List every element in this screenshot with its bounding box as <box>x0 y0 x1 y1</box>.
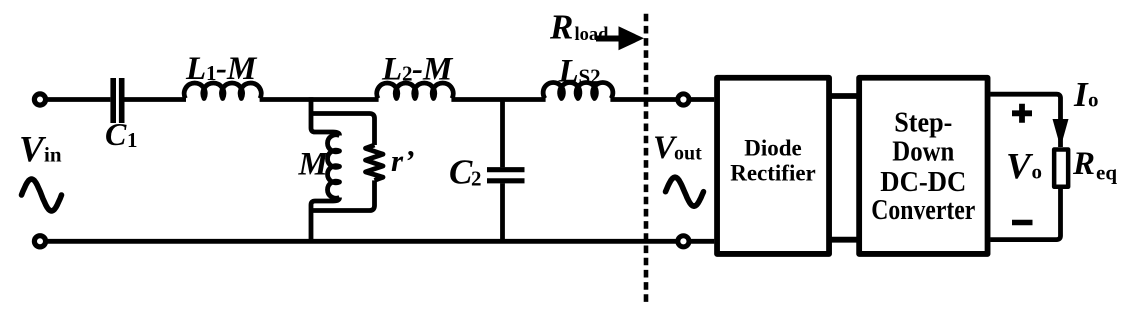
dashed boundary line <box>644 14 649 302</box>
svg-text:R: R <box>549 8 573 47</box>
inductor L2-M coil <box>377 83 454 98</box>
svg-text:2: 2 <box>471 167 482 191</box>
svg-text:load: load <box>575 25 610 45</box>
wire output terminal bottom to diode rectifier box <box>690 239 714 244</box>
svg-text:V: V <box>19 129 47 170</box>
inductor M coil <box>328 135 340 199</box>
source Vout sine <box>666 177 704 206</box>
svg-text:L: L <box>381 52 402 88</box>
wire top from input terminal to C1 <box>45 97 110 102</box>
Rload arrow stem <box>596 36 620 42</box>
svg-text:-M: -M <box>412 52 454 88</box>
wire right loop bottom <box>990 189 1060 240</box>
wire LS2 to output terminal <box>610 97 676 102</box>
svg-text:C: C <box>449 153 473 192</box>
svg-text:M: M <box>298 146 330 182</box>
capacitor C2 plates <box>487 167 525 172</box>
svg-text:Diode: Diode <box>744 136 802 161</box>
svg-text:Down: Down <box>892 136 954 168</box>
svg-text:o: o <box>1088 88 1099 112</box>
plus sign <box>1012 104 1032 123</box>
wire L1-M to L2-M through node A <box>260 97 379 102</box>
capacitor C2 top lead <box>500 100 505 168</box>
svg-text:Step-: Step- <box>894 107 952 139</box>
wire between boxes bottom <box>831 237 857 243</box>
svg-text:in: in <box>44 142 62 166</box>
Rload arrowhead <box>619 26 645 50</box>
terminal input bottom <box>34 236 45 247</box>
capacitor C2 bottom lead <box>500 183 505 241</box>
inductor L1-M coil <box>184 83 261 99</box>
svg-text:Converter: Converter <box>871 194 975 226</box>
wire C1 to L1-M <box>125 97 187 102</box>
bottom wire from input terminal to output terminal <box>45 239 676 244</box>
svg-text:2: 2 <box>402 62 413 86</box>
wire L2-M to LS2 through node B <box>451 97 545 102</box>
Io arrowhead <box>1053 119 1069 148</box>
svg-text:out: out <box>674 143 702 165</box>
wire output terminal top to diode rectifier box <box>690 97 714 102</box>
svg-text:L: L <box>185 51 206 87</box>
resistor r' top lead <box>311 114 375 146</box>
resistor Req box <box>1054 149 1068 186</box>
source Vin sine <box>22 179 62 211</box>
svg-text:S2: S2 <box>579 64 601 88</box>
resistor r' bottom lead <box>311 180 375 210</box>
svg-text:o: o <box>1032 160 1043 184</box>
svg-text:-M: -M <box>216 51 258 87</box>
M coil bottom connection <box>311 198 340 244</box>
wire right loop top <box>990 94 1060 147</box>
minus sign <box>1012 220 1033 225</box>
svg-text:R: R <box>1072 146 1095 182</box>
step-down dc-dc converter box <box>859 78 987 254</box>
svg-text:Rectifier: Rectifier <box>730 161 816 186</box>
terminal input top <box>34 94 45 105</box>
svg-text:L: L <box>558 53 579 89</box>
diode rectifier box <box>717 78 829 254</box>
node M-branch vertical upper <box>311 97 340 135</box>
svg-text:1: 1 <box>206 61 217 85</box>
resistor r' zigzag <box>366 145 384 180</box>
svg-text:V: V <box>1006 147 1034 188</box>
svg-text:1: 1 <box>127 128 138 152</box>
svg-text:r’: r’ <box>391 143 415 178</box>
capacitor C1 plates <box>110 78 116 123</box>
terminal output bottom <box>678 236 689 247</box>
svg-text:C: C <box>105 116 127 152</box>
svg-text:eq: eq <box>1096 161 1117 185</box>
svg-text:I: I <box>1073 75 1089 114</box>
terminal output top <box>678 94 689 105</box>
wire between boxes top <box>831 93 857 99</box>
inductor LS2 coil <box>543 82 613 98</box>
